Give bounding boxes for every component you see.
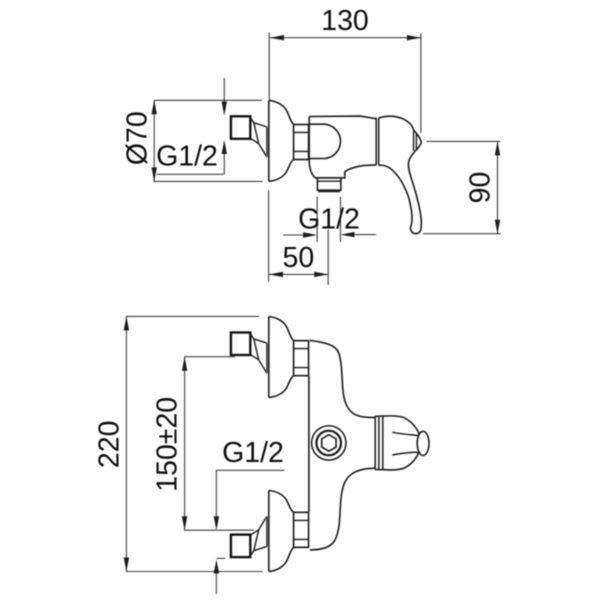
dimension 130 line: [270, 37, 421, 39]
handle nub bulge (side view): [414, 130, 421, 152]
spout centre extension line: [327, 230, 329, 286]
svg-text:220: 220: [94, 421, 126, 469]
top wall connector (plan view): [231, 333, 267, 374]
dimension 150+-20 arrows: [182, 357, 187, 371]
dimension 220 arrows: [124, 316, 129, 330]
dimension 90 arrows: [495, 141, 500, 155]
dimension 90 line: [497, 141, 499, 233]
dimension 130 arrows: [270, 35, 284, 40]
spout nut (side view): [317, 178, 341, 190]
label G1/2 tick (plan view): [217, 557, 226, 559]
label G1/2 upper arrow: [223, 78, 225, 102]
dimension 90 extension lines: [423, 141, 501, 233]
svg-text:130: 130: [321, 5, 369, 37]
hex screw inner circle: [316, 431, 341, 456]
bottom wall connector (plan view, mirrored): [231, 516, 267, 557]
flange (side view): [269, 100, 309, 181]
handle cap bottom edge (plan view): [383, 451, 420, 470]
handle cap top edge (plan view): [383, 416, 420, 435]
faucet body top edge: [309, 116, 376, 119]
handle lever (side view): [379, 153, 422, 234]
top flange (plan view): [269, 317, 309, 398]
label G1/2 lower arrow: [223, 154, 225, 174]
dimension 50 line: [269, 273, 328, 275]
body edge vertical line (plan view): [308, 376, 310, 512]
dimension 130 extension lines: [269, 33, 421, 134]
svg-text:Ø70: Ø70: [122, 111, 154, 165]
svg-text:G1/2: G1/2: [298, 204, 360, 236]
svg-text:G1/2: G1/2: [222, 437, 284, 469]
dimension O70 arrows: [152, 100, 157, 114]
dimension 220 line: [125, 316, 127, 571]
handle ring lines (plan view): [375, 416, 383, 470]
svg-text:150±20: 150±20: [152, 397, 184, 492]
dimension 150+-20 extension lines: [184, 357, 254, 531]
wall line below flange: [268, 190, 270, 282]
label G1/2 lower arrow (plan view): [215, 574, 217, 595]
spout nut bottom lip: [318, 191, 340, 193]
spout nut inner line: [317, 180, 341, 182]
cartridge dome inside body: [309, 124, 341, 158]
dimension G1/2 spout arrows: [283, 234, 376, 236]
wall connector (side view): [231, 116, 267, 157]
dimension 220 extension lines: [126, 316, 263, 571]
faucet body left edge and bottom: [309, 117, 376, 178]
label G1/2 upper arrow (plan view): [215, 470, 217, 516]
dimension G1/2 spout extension lines: [317, 197, 340, 243]
label G1/2 underline: [157, 173, 224, 175]
bottom flange (plan view, mirrored): [269, 491, 309, 572]
handle lever lower silhouette (plan view): [392, 452, 418, 455]
body upper S-curve to handle boss: [310, 340, 376, 417]
body lower S-curve from handle boss: [310, 468, 376, 550]
body/cap seam lines: [376, 118, 379, 166]
hex screw outer circle: [312, 426, 346, 460]
handle nub base rings (side view): [414, 131, 417, 151]
svg-text:G1/2: G1/2: [156, 141, 218, 173]
svg-text:90: 90: [465, 172, 497, 204]
dimension 50 arrows: [269, 272, 283, 277]
hex socket: [322, 435, 336, 452]
dimension O70 extension lines: [154, 100, 263, 181]
dimension 150+-20 line: [184, 357, 186, 531]
label G1/2 underline (plan view): [216, 469, 284, 471]
svg-text:50: 50: [283, 242, 315, 274]
handle ring block top and bottom edges (plan view): [375, 416, 383, 470]
handle lever upper silhouette (plan view): [392, 432, 418, 435]
handle cap dome (side view): [379, 116, 414, 130]
dimension O70 line: [153, 100, 155, 181]
handle nub ellipse (plan view): [417, 431, 429, 455]
